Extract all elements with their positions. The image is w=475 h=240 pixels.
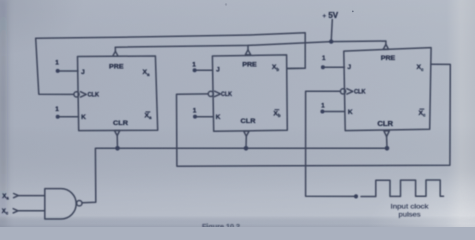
wire: NAND input A [19,195,45,197]
wire: U1 K input with logic 1 [60,116,79,118]
flip-flop U3 PRE triangle [383,44,388,49]
node: U3 K dot [320,110,324,114]
dust speck [352,11,354,13]
wire: PRE tick FF2 [247,45,249,49]
node: U1 J dot [56,69,60,73]
flip-flop U1 box [78,56,158,131]
node: U2 J dot [193,68,197,72]
wire: clock feedback top line (Xb net) [36,33,306,69]
flip-flop U1 CLK wedge [81,92,87,97]
wire: U2 J input with logic 1 [197,69,213,71]
wire: input clock riser to FF3 CLK [306,91,356,196]
node: U1 K dot [56,115,60,119]
wire: PRE net from FF1 to +5V and FF3 [115,41,386,47]
NAND input A arrow [14,194,19,198]
wire: U1 J input with logic 1 [60,70,78,72]
flip-flop U2 CLR triangle [244,131,249,136]
node: +5V junction dot [329,39,333,43]
flip-flop U1 PRE triangle [113,51,118,56]
flip-flop U1 CLR triangle [114,131,119,136]
flip-flop U1 CLK bubble [74,92,79,97]
wire: U3 J input with logic 1 [325,66,345,68]
wire: +5V lead [331,20,332,42]
wire: NAND input B [19,210,45,212]
wire: U3 K input with logic 1 [324,111,344,113]
wire: left vertical to FF1 CLK [36,38,74,94]
wire: PRE tick FF1 [114,47,116,51]
flip-flop U3 CLK bubble [340,89,345,94]
wire: CLR net from NAND output [82,148,387,203]
wire: Xq feedback FF3 to FF2 CLK [177,64,451,166]
flip-flop U2 PRE triangle [245,50,250,55]
flip-flop U3 box [344,48,431,131]
node: U3 J dot [321,65,325,69]
node: CLR dot FF1 [115,146,120,151]
wire: CLR drop FF1 [116,136,118,149]
flip-flop U3 CLK wedge [347,89,353,94]
NAND gate G1 output bubble [77,201,82,206]
node: U2 K dot [193,115,197,119]
wire: U2 K input with logic 1 [197,116,214,118]
flip-flop U2 CLK wedge [215,91,221,96]
flip-flop U2 CLK bubble [208,91,213,96]
node: clock junction dot [354,194,358,198]
film grain [0,0,1,1]
wire: U2 Xb output to riser [287,67,305,69]
NAND gate G1 body [45,189,76,219]
wire: CLR drop FF3 [386,137,388,149]
flip-flop U3 CLR triangle [384,131,389,137]
faint smudge [225,3,227,5]
wire: CLR drop FF2 [245,136,247,148]
flip-flop U2 box [212,55,287,131]
node: CLR dot FF2 [244,146,249,151]
NAND input B arrow [13,209,18,213]
input clock pulses waveform [361,180,444,197]
node: CLR dot FF3 [385,146,390,151]
